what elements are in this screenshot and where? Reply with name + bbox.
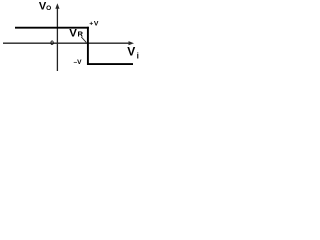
svg-text:V: V: [127, 45, 135, 59]
-V output level segment: [87, 63, 133, 65]
leader line from VR label to transition corner: [81, 37, 86, 43]
svg-text:V: V: [69, 28, 77, 40]
svg-text:–V: –V: [74, 59, 83, 66]
Vo axis arrowhead: [55, 3, 59, 9]
svg-text:O: O: [46, 5, 51, 12]
svg-text:0: 0: [50, 40, 54, 47]
Vi axis arrowhead: [129, 41, 135, 45]
+V output level segment: [15, 27, 89, 29]
svg-text:+ V: + V: [89, 21, 99, 28]
svg-text:i: i: [137, 51, 139, 60]
Vi axis (horizontal): [3, 42, 131, 44]
svg-text:R: R: [78, 30, 84, 39]
transition segment at Vi = VR: [87, 27, 89, 65]
Vo axis (vertical): [56, 6, 58, 72]
